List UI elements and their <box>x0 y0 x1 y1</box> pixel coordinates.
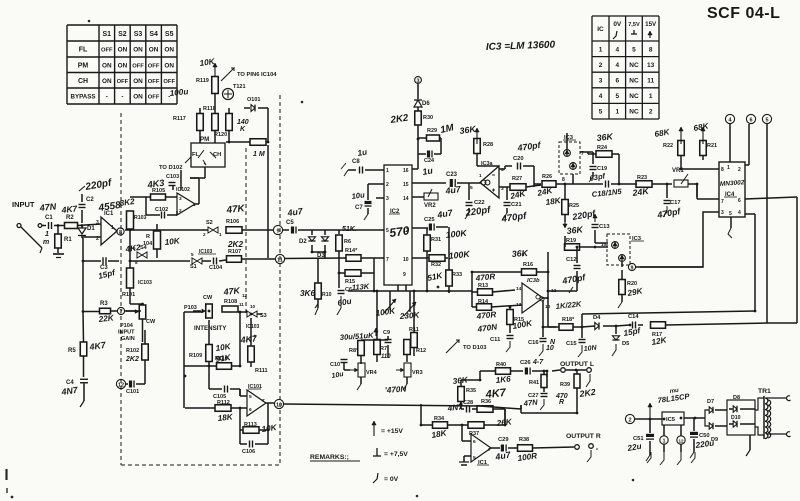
resistor R29 <box>427 135 440 141</box>
resistor R16 <box>522 269 537 276</box>
node 9 <box>273 225 282 234</box>
wire <box>521 412 577 414</box>
wire <box>472 182 481 184</box>
svg-text:C13: C13 <box>599 224 610 230</box>
capacitor C3 <box>102 257 104 265</box>
node 4 <box>725 114 734 123</box>
dashed enclosure box <box>120 113 122 465</box>
resistor R10 <box>317 258 319 283</box>
trimmer 100K <box>389 291 391 310</box>
svg-text:3: 3 <box>386 196 389 202</box>
svg-text:7: 7 <box>386 257 389 263</box>
svg-text:PM: PM <box>200 136 209 143</box>
svg-text:C12: C12 <box>566 257 577 263</box>
svg-text:C23: C23 <box>446 172 458 178</box>
resistor R5 <box>80 342 87 356</box>
IC supply pin table <box>592 16 659 119</box>
svg-text:R25: R25 <box>569 203 579 209</box>
svg-text:2: 2 <box>738 167 741 173</box>
svg-text:ON: ON <box>164 47 174 54</box>
ground <box>540 399 544 410</box>
svg-text:4: 4 <box>615 46 619 53</box>
svg-text:R7: R7 <box>380 346 387 352</box>
wire <box>397 285 399 291</box>
wire VR1 to pin7 <box>696 184 698 199</box>
svg-text:R23: R23 <box>637 175 647 181</box>
supply arrow <box>649 403 651 418</box>
svg-text:D9: D9 <box>711 437 718 443</box>
capacitor C9 <box>385 339 392 341</box>
op-amp IC1 output <box>471 434 491 462</box>
svg-text:ON: ON <box>118 62 128 69</box>
op-amp IC1 <box>101 217 117 245</box>
svg-text:R112: R112 <box>217 400 230 406</box>
svg-text:OUTPUT R: OUTPUT R <box>566 433 601 440</box>
resistor R1 <box>57 226 59 235</box>
svg-text:10K: 10K <box>164 236 181 247</box>
switch settings table <box>67 25 177 104</box>
svg-text:ON: ON <box>164 62 174 69</box>
svg-text:4: 4 <box>599 93 603 100</box>
svg-text:R103: R103 <box>134 215 147 221</box>
svg-text:'470N: '470N <box>385 384 408 395</box>
svg-text:2: 2 <box>203 232 206 237</box>
op-amp IC3a (OTA) <box>480 166 499 198</box>
svg-text:R24: R24 <box>597 145 608 151</box>
svg-text:10u: 10u <box>351 190 366 201</box>
bridge box <box>727 400 755 435</box>
analog switch S3 <box>247 311 252 317</box>
svg-text:5: 5 <box>632 46 636 53</box>
svg-text:R31: R31 <box>431 237 441 243</box>
svg-text:1: 1 <box>111 225 114 231</box>
svg-text:1: 1 <box>663 438 666 444</box>
svg-text:NC: NC <box>629 109 639 116</box>
svg-text:C26: C26 <box>520 360 531 366</box>
svg-text:2: 2 <box>599 62 603 69</box>
IC3 OTA box 2 (dashed) <box>607 234 630 265</box>
resistor R28 <box>476 128 478 144</box>
svg-text:47N: 47N <box>38 201 57 213</box>
svg-text:36K: 36K <box>566 224 584 236</box>
svg-text:0V: 0V <box>613 21 622 28</box>
capacitor C10 <box>344 369 350 371</box>
wire <box>499 186 510 188</box>
svg-text:C29: C29 <box>498 437 509 443</box>
svg-text:18K: 18K <box>217 412 234 423</box>
wire <box>766 433 786 435</box>
resistor R3 <box>100 308 111 314</box>
output L terminals <box>552 370 560 371</box>
node 8 <box>117 228 124 235</box>
capacitor C104 <box>213 258 215 265</box>
resistor R38 <box>518 445 533 452</box>
svg-text:15: 15 <box>403 182 409 188</box>
capacitor C16 <box>542 327 544 337</box>
wire <box>534 183 541 185</box>
svg-text:-: - <box>121 94 123 101</box>
wire <box>376 291 378 339</box>
resistor R17 <box>651 322 666 329</box>
capacitor C5 <box>283 229 289 231</box>
svg-text:5: 5 <box>386 228 389 234</box>
pot VR1 <box>674 180 688 187</box>
svg-text:S4: S4 <box>149 31 158 38</box>
resistor R39 <box>574 374 580 388</box>
svg-text:OFF: OFF <box>148 95 160 101</box>
svg-text:R41: R41 <box>529 380 539 386</box>
svg-text:C50: C50 <box>699 433 710 439</box>
svg-text:3: 3 <box>599 78 603 85</box>
svg-text:6: 6 <box>249 407 252 413</box>
op-amp IC102 <box>177 193 195 215</box>
capacitor C4 <box>80 378 88 380</box>
wire main bus lower <box>348 290 472 292</box>
svg-text:2: 2 <box>386 182 389 188</box>
resistor R2 <box>65 223 78 229</box>
svg-text:S2: S2 <box>118 31 127 38</box>
svg-text:11: 11 <box>647 78 654 85</box>
svg-text:4: 4 <box>738 210 741 216</box>
input terminal <box>17 224 21 228</box>
wire <box>376 197 384 199</box>
svg-text:NC: NC <box>629 93 639 100</box>
node 3 <box>415 77 422 84</box>
svg-text:13: 13 <box>647 62 655 69</box>
svg-text:CH: CH <box>78 78 88 85</box>
svg-text:8: 8 <box>649 46 653 53</box>
pot P104 INPUT GAIN <box>139 305 146 319</box>
wire <box>204 167 206 178</box>
capacitor C1 <box>48 222 50 229</box>
svg-text:C28: C28 <box>463 400 473 406</box>
svg-text:IC5: IC5 <box>666 417 676 423</box>
svg-text:ON: ON <box>118 47 128 54</box>
wire <box>242 229 273 231</box>
pot VR2 <box>412 196 424 198</box>
svg-text:VR3: VR3 <box>412 370 423 376</box>
resistor R120 <box>226 114 233 131</box>
svg-text:47K: 47K <box>222 285 241 297</box>
wire pin3 <box>640 212 719 267</box>
svg-text:3K6: 3K6 <box>300 289 315 298</box>
resistor R111 <box>248 346 255 362</box>
wire <box>461 425 463 441</box>
svg-text:10: 10 <box>403 257 409 263</box>
wire pin4 down <box>745 213 755 215</box>
node 1 <box>660 436 668 444</box>
svg-text:R34: R34 <box>434 416 445 422</box>
svg-text:PM: PM <box>78 62 89 69</box>
svg-text:R119: R119 <box>196 78 209 84</box>
svg-text:11: 11 <box>277 257 283 263</box>
ground <box>83 384 85 402</box>
svg-text:S3: S3 <box>134 31 143 38</box>
IC4 box <box>719 162 745 217</box>
wire pin6 to right edge <box>745 197 797 199</box>
svg-text:S2: S2 <box>206 220 213 226</box>
terminal <box>38 224 42 228</box>
svg-text:1: 1 <box>45 231 49 238</box>
svg-text:47N: 47N <box>522 398 538 409</box>
svg-text:S4: S4 <box>140 245 148 251</box>
svg-text:C9: C9 <box>383 330 390 336</box>
capacitor C22 <box>468 183 470 200</box>
svg-text:OUTPUT L: OUTPUT L <box>560 361 594 368</box>
svg-text:8: 8 <box>562 177 565 183</box>
svg-text:R22: R22 <box>663 143 673 149</box>
svg-text:R21: R21 <box>707 143 717 149</box>
svg-text:3: 3 <box>721 210 724 216</box>
switch box PM/FL/CH <box>191 143 225 167</box>
wire <box>504 409 506 425</box>
resistor R13 <box>478 289 493 296</box>
scan artifacts <box>7 20 634 498</box>
svg-text:C8: C8 <box>352 159 360 165</box>
wire <box>199 131 201 143</box>
capacitor C7 <box>368 183 384 185</box>
svg-text:OFF: OFF <box>163 79 175 85</box>
svg-text:10: 10 <box>601 242 607 248</box>
svg-text:OFF: OFF <box>148 63 160 69</box>
node 9 right <box>628 263 635 270</box>
dashed divider <box>245 148 247 315</box>
ground <box>647 452 651 463</box>
resistor R104 <box>154 231 161 249</box>
legend +15V <box>373 421 375 436</box>
wire output L bus <box>284 404 480 406</box>
svg-text:OFF: OFF <box>101 48 113 54</box>
wire <box>663 425 665 436</box>
svg-text:R5: R5 <box>68 348 76 354</box>
svg-text:47K: 47K <box>225 203 246 216</box>
svg-text:= 0V: = 0V <box>384 476 399 483</box>
svg-text:1: 1 <box>599 46 603 53</box>
svg-text:R117: R117 <box>173 116 186 122</box>
svg-text:INPUT: INPUT <box>118 330 135 336</box>
svg-text:C7: C7 <box>355 205 363 211</box>
svg-text:R105: R105 <box>152 188 165 194</box>
svg-text:SCF 04-L: SCF 04-L <box>707 5 780 22</box>
resistor R109 <box>206 345 213 362</box>
svg-text:R10: R10 <box>322 292 332 298</box>
svg-text:FL: FL <box>79 47 88 54</box>
wire <box>361 339 377 341</box>
ground <box>57 248 59 253</box>
wire <box>547 298 549 327</box>
svg-text:R108: R108 <box>224 299 237 305</box>
svg-text:O101: O101 <box>247 97 260 103</box>
svg-text:2: 2 <box>628 417 631 423</box>
resistor R18 <box>559 324 573 331</box>
svg-text:1: 1 <box>386 168 389 174</box>
svg-text:ON: ON <box>102 62 112 69</box>
svg-text:C1: C1 <box>45 215 53 221</box>
svg-text:D7: D7 <box>707 399 714 405</box>
svg-text:R19: R19 <box>566 238 576 244</box>
svg-text:5: 5 <box>765 117 768 123</box>
op-amp IC3b (OTA) <box>522 283 543 313</box>
resistor R30 <box>415 111 422 125</box>
capacitor C21 <box>504 202 511 204</box>
svg-text:9: 9 <box>276 228 279 234</box>
node 12 <box>677 436 685 444</box>
svg-text:R29: R29 <box>427 128 437 134</box>
wire <box>54 225 58 227</box>
svg-text:REMARKS:;: REMARKS:; <box>310 454 349 461</box>
diode D2 <box>311 230 313 235</box>
svg-text:ON: ON <box>133 94 143 101</box>
pot VR4 <box>358 363 365 377</box>
svg-text:51K.: 51K. <box>342 226 357 233</box>
svg-text:R6: R6 <box>344 239 351 245</box>
svg-text:C16: C16 <box>528 340 539 346</box>
resistor R6 <box>338 230 340 234</box>
svg-text:R40: R40 <box>496 362 506 368</box>
svg-text:P103: P103 <box>184 305 197 311</box>
resistor R45 <box>345 270 361 277</box>
svg-text:TO D102: TO D102 <box>159 165 182 171</box>
op-amp IC101 <box>247 390 266 416</box>
svg-text:C106: C106 <box>242 449 255 455</box>
svg-text:R11: R11 <box>409 327 419 333</box>
svg-text:R12: R12 <box>416 348 426 354</box>
resistor R33 <box>446 270 453 286</box>
svg-text:9: 9 <box>631 266 634 272</box>
capacitor C2 <box>81 210 83 223</box>
node 7 <box>117 307 124 314</box>
diode D5 <box>615 326 617 334</box>
svg-text:10: 10 <box>276 402 282 408</box>
svg-text:4: 4 <box>501 167 504 173</box>
svg-text:4K7: 4K7 <box>484 387 507 401</box>
wire <box>595 242 608 244</box>
svg-text:C104: C104 <box>209 265 223 271</box>
svg-text:IC102: IC102 <box>176 187 190 193</box>
svg-text:10N: 10N <box>583 345 597 353</box>
svg-text:R39: R39 <box>560 382 570 388</box>
svg-text:R35: R35 <box>466 388 476 394</box>
svg-text:12: 12 <box>678 438 684 443</box>
svg-text:10: 10 <box>546 345 554 352</box>
svg-text:C11: C11 <box>490 337 501 343</box>
svg-text:IC3b: IC3b <box>527 278 540 284</box>
resistor R24 <box>596 151 612 158</box>
resistor R102 <box>142 344 149 360</box>
legend +7.5V <box>376 448 378 456</box>
svg-text:BYPASS: BYPASS <box>71 94 96 101</box>
resistor R113 <box>243 427 259 434</box>
capacitor C103 <box>169 182 176 184</box>
svg-text:5: 5 <box>615 93 619 100</box>
svg-text:R20: R20 <box>627 281 637 287</box>
regulator IC5 <box>662 412 684 425</box>
svg-text:C25: C25 <box>424 217 435 223</box>
svg-text:T121: T121 <box>233 84 246 90</box>
svg-text:5: 5 <box>729 211 732 217</box>
output R terminals <box>575 445 580 450</box>
svg-text:5: 5 <box>191 252 194 257</box>
wire node6 to pin2 <box>748 124 750 165</box>
svg-text:6: 6 <box>615 78 619 85</box>
resistor R14 <box>477 304 492 311</box>
svg-text:C5: C5 <box>286 220 294 226</box>
wire <box>412 168 418 170</box>
svg-text:5: 5 <box>599 109 603 116</box>
svg-text:S1: S1 <box>190 264 197 270</box>
resistor R37 <box>468 422 484 429</box>
svg-text:2K2: 2K2 <box>227 240 243 249</box>
svg-text:R38: R38 <box>519 437 529 443</box>
svg-text:R2: R2 <box>66 215 74 221</box>
svg-text:2: 2 <box>649 109 653 116</box>
svg-text:36K: 36K <box>596 131 614 143</box>
legend 0V <box>373 473 378 483</box>
resistor R112 <box>215 405 231 412</box>
resistor R22 <box>680 127 682 144</box>
svg-text:R14*: R14* <box>345 248 358 254</box>
svg-text:R113: R113 <box>244 422 257 428</box>
wire <box>183 312 185 408</box>
diode D4 <box>582 326 595 327</box>
svg-text:6: 6 <box>738 198 741 204</box>
resistor R121 <box>267 108 269 142</box>
svg-text:C102: C102 <box>155 207 168 213</box>
svg-text:ON: ON <box>149 47 159 54</box>
diode D9 <box>705 418 709 426</box>
svg-text:R32: R32 <box>431 262 441 268</box>
svg-text:GAIN: GAIN <box>121 336 135 342</box>
svg-text:12: 12 <box>403 228 409 234</box>
svg-text:OFF: OFF <box>148 79 160 85</box>
resistor R25 <box>562 200 569 215</box>
resistor R12 <box>404 340 411 355</box>
wire <box>125 310 141 312</box>
svg-text:C21: C21 <box>511 202 522 208</box>
diode D7 <box>705 410 709 418</box>
wire <box>267 145 269 258</box>
capacitor C20 <box>504 166 506 169</box>
node 10 <box>274 399 283 408</box>
svg-text:36K: 36K <box>511 248 528 259</box>
capacitor C24 <box>427 151 430 158</box>
svg-text:R16: R16 <box>523 262 533 268</box>
capacitor C13 <box>594 214 596 222</box>
svg-text:C14: C14 <box>628 314 639 320</box>
capacitor C26 <box>525 368 528 375</box>
svg-text:7,5V: 7,5V <box>628 22 640 28</box>
wire <box>82 238 84 312</box>
svg-text:C10: C10 <box>330 362 340 368</box>
svg-text:4-7: 4-7 <box>532 359 544 366</box>
resistor R41 <box>541 375 547 388</box>
svg-text:D1: D1 <box>87 226 95 232</box>
wire <box>78 224 102 226</box>
svg-text:R3: R3 <box>100 301 108 307</box>
resistor R27 <box>510 184 526 191</box>
svg-text:140: 140 <box>237 119 249 126</box>
svg-text:16: 16 <box>403 168 409 174</box>
svg-text:NC: NC <box>629 62 639 69</box>
svg-text:C103: C103 <box>166 174 179 180</box>
resistor R19 <box>565 244 580 251</box>
svg-text:8: 8 <box>721 167 724 173</box>
svg-text:C2: C2 <box>86 197 94 203</box>
capacitor C14 <box>632 322 634 329</box>
svg-text:5: 5 <box>470 185 473 191</box>
svg-text:R106: R106 <box>226 219 239 225</box>
resistor R117 <box>197 114 204 131</box>
